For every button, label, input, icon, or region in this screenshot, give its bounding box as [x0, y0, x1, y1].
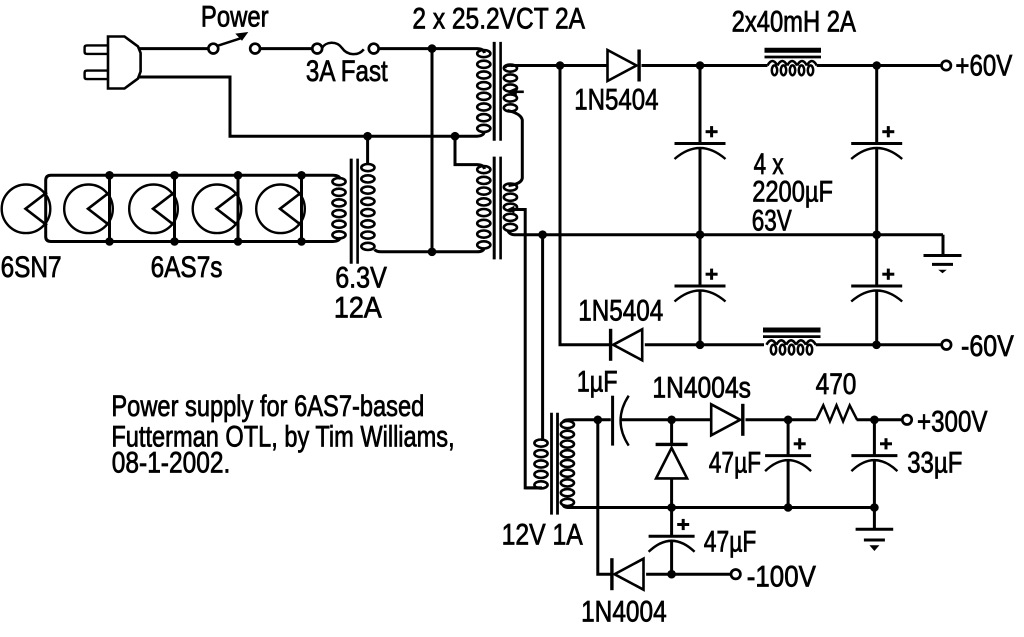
transformer T3 secondary winding [332, 175, 345, 241]
svg-text:1N5404: 1N5404 [578, 293, 663, 327]
transformer T1 core [494, 42, 500, 141]
choke L2 2x40mH [767, 340, 816, 354]
capacitor C4 2200uF [851, 235, 902, 345]
wire choke2 to -60V terminal [816, 343, 942, 346]
node D4 bottom [667, 503, 676, 512]
capacitor C5 1uF [613, 396, 672, 446]
node C6 top [784, 416, 793, 425]
choke L2 core [763, 330, 821, 337]
svg-text:12A: 12A [334, 290, 382, 323]
svg-text:6SN7: 6SN7 [1, 250, 62, 284]
label -60V [961, 329, 1014, 362]
transformer T4 core [552, 413, 558, 515]
fuse F1 3A [312, 43, 378, 54]
svg-text:6AS7s: 6AS7s [151, 250, 223, 284]
label 12V 1A [502, 518, 584, 552]
wire ground rail [514, 233, 943, 236]
label 33uF [907, 446, 962, 479]
wire 12V secondary top [569, 418, 611, 421]
label 63V [752, 203, 792, 237]
node D4 top [667, 416, 676, 425]
svg-text:1N4004: 1N4004 [581, 594, 667, 628]
svg-text:-100V: -100V [747, 560, 816, 593]
wire D2 to choke2 [645, 343, 764, 346]
label 6.3V [335, 260, 387, 293]
node C2 bottom [872, 230, 881, 239]
diode D4 shunt [656, 420, 688, 508]
svg-text:+60V: +60V [955, 49, 1012, 82]
AC plug P1 [85, 37, 141, 89]
node hot junction [428, 44, 437, 53]
wire ground jog [942, 235, 945, 255]
capacitor C8 47uF [649, 508, 695, 575]
wire jog to T2 primary top [455, 136, 477, 164]
label 47uF mid [709, 446, 761, 480]
svg-text:47µF: 47µF [709, 446, 761, 480]
wire 6.3V bottom rail [381, 250, 477, 253]
svg-text:12V 1A: 12V 1A [502, 518, 584, 552]
svg-text:Power: Power [201, 0, 269, 33]
capacitor C6 47uF [765, 420, 811, 508]
diode D5 1N4004 [612, 558, 644, 590]
label 2 x 25.2VCT 2A [412, 1, 585, 35]
svg-text:63V: 63V [752, 203, 792, 237]
svg-text:1N4004s: 1N4004s [652, 370, 751, 404]
diode D1 1N5404 [608, 50, 640, 82]
capacitor C1 2200uF [675, 66, 726, 235]
wire heater bus left end [44, 181, 47, 237]
svg-text:470: 470 [816, 367, 857, 401]
label 1uF [577, 365, 618, 398]
wire plug neutral [139, 77, 478, 136]
svg-text:2x40mH 2A: 2x40mH 2A [732, 5, 856, 38]
wire ground jog 2 [873, 508, 876, 529]
text credit line 1 [111, 390, 424, 423]
svg-text:33µF: 33µF [907, 446, 962, 479]
svg-text:Power supply for 6AS7-based: Power supply for 6AS7-based [111, 390, 424, 423]
label 2200uF [752, 175, 833, 208]
wire D1 to choke [642, 64, 768, 67]
text credit line 3 [112, 445, 230, 479]
transformer T1 secondary winding [504, 65, 517, 112]
transformer T3 core [351, 159, 357, 264]
wire T1 secondary to diode [511, 64, 607, 67]
terminal +300V [902, 415, 911, 424]
wire fuse to transformer primary [379, 47, 478, 50]
node neutral to T2 primary [451, 132, 460, 141]
node C6 bottom [784, 503, 793, 512]
node C1 top [696, 61, 705, 70]
label 4 x [754, 147, 784, 181]
tube V4 6AS7 [193, 171, 243, 246]
node C2 top [872, 61, 881, 70]
transformer T2 secondary winding [504, 184, 517, 231]
transformer T3 primary winding [361, 164, 381, 252]
label Power [201, 0, 269, 33]
node C1 bottom [696, 230, 705, 239]
resistor R1 470 [816, 405, 857, 421]
capacitor C3 2200uF [675, 235, 726, 345]
tube V1 6SN7 [2, 185, 51, 234]
wire D3 to resistor [746, 418, 817, 421]
node 12V primary tap [538, 230, 547, 239]
wire choke to +60V terminal [817, 64, 942, 67]
label 1N4004s [652, 370, 751, 404]
svg-text:+300V: +300V [917, 405, 987, 438]
terminal +60V [942, 61, 951, 70]
label 12A [334, 290, 382, 323]
label 470 [816, 367, 857, 401]
label 2x40mH 2A [732, 5, 856, 38]
wire 1uF node to D5 [598, 420, 612, 574]
wire to D3 [672, 418, 712, 421]
capacitor C2 2200uF [851, 66, 902, 235]
transformer T1 primary winding [477, 49, 490, 137]
svg-text:1µF: 1µF [577, 365, 618, 398]
T2 center tap arrow [507, 206, 515, 214]
transformer T4 primary winding [525, 440, 547, 489]
wire T2 secondary bottom to ground rail [508, 230, 515, 235]
choke L1 2x40mH [768, 61, 817, 75]
label 47uF lower [704, 524, 756, 558]
wire 12V secondary bottom rail [569, 506, 874, 509]
label 6AS7s [151, 250, 223, 284]
terminal -60V [942, 340, 951, 349]
node C4 bottom [872, 341, 881, 350]
diode D3 1N4004 [711, 404, 743, 436]
label 3A Fast [306, 55, 388, 88]
wire hot vertical [431, 49, 434, 252]
terminal -100V [731, 570, 740, 579]
node C7 bottom [870, 503, 879, 512]
svg-text:08-1-2002.: 08-1-2002. [112, 445, 230, 479]
wire T1-T2 secondary series link [508, 111, 523, 186]
wire heater bottom bus [46, 237, 333, 242]
svg-text:2 x 25.2VCT 2A: 2 x 25.2VCT 2A [412, 1, 585, 35]
svg-text:47µF: 47µF [704, 524, 756, 558]
node neutral to 6.3V primary [363, 132, 372, 141]
choke L1 core [765, 50, 822, 57]
label 1N4004 [581, 594, 667, 628]
ground symbol lower [856, 529, 894, 551]
ground symbol right [924, 256, 962, 274]
svg-text:1N5404: 1N5404 [574, 83, 658, 116]
label +60V [955, 49, 1012, 82]
wire 6.3V primary top feed [366, 136, 369, 165]
tube V2 6AS7 [64, 171, 114, 246]
node C7 top [870, 416, 879, 425]
node C3 bottom [696, 341, 705, 350]
svg-text:3A Fast: 3A Fast [306, 55, 388, 88]
svg-text:6.3V: 6.3V [335, 260, 387, 293]
wire heater top bus [46, 175, 333, 180]
T1 center tap arrow [506, 87, 524, 96]
wire plug hot to switch [139, 47, 209, 50]
node hot to 6.3V rail [428, 248, 437, 257]
label +300V [917, 405, 987, 438]
tube V5 6AS7 [256, 171, 306, 246]
diode D2 1N5404 [611, 329, 643, 361]
capacitor C7 33uF [851, 420, 897, 508]
wire T2 CT to 12V primary [511, 210, 541, 488]
label -100V [747, 560, 816, 593]
switch S1 [208, 32, 260, 53]
transformer T2 primary winding [477, 165, 490, 252]
label 1N5404 top [574, 83, 658, 116]
svg-text:-60V: -60V [961, 329, 1014, 362]
node 1uF left [594, 416, 603, 425]
label 6SN7 [1, 250, 62, 284]
tube V3 6AS7 [129, 171, 179, 246]
text credit line 2 [111, 420, 454, 453]
transformer T4 secondary winding [561, 420, 574, 508]
wire D5 to -100V [646, 573, 731, 576]
label 1N5404 bottom [578, 293, 663, 327]
wire switch to fuse [260, 47, 313, 50]
wire resistor to +300V [857, 418, 903, 421]
node D1 input [556, 61, 565, 70]
node C8 bottom [667, 570, 676, 579]
transformer T2 core [494, 157, 500, 260]
wire D2 feed vertical [560, 66, 611, 345]
wire ground to 12V primary [541, 235, 544, 441]
